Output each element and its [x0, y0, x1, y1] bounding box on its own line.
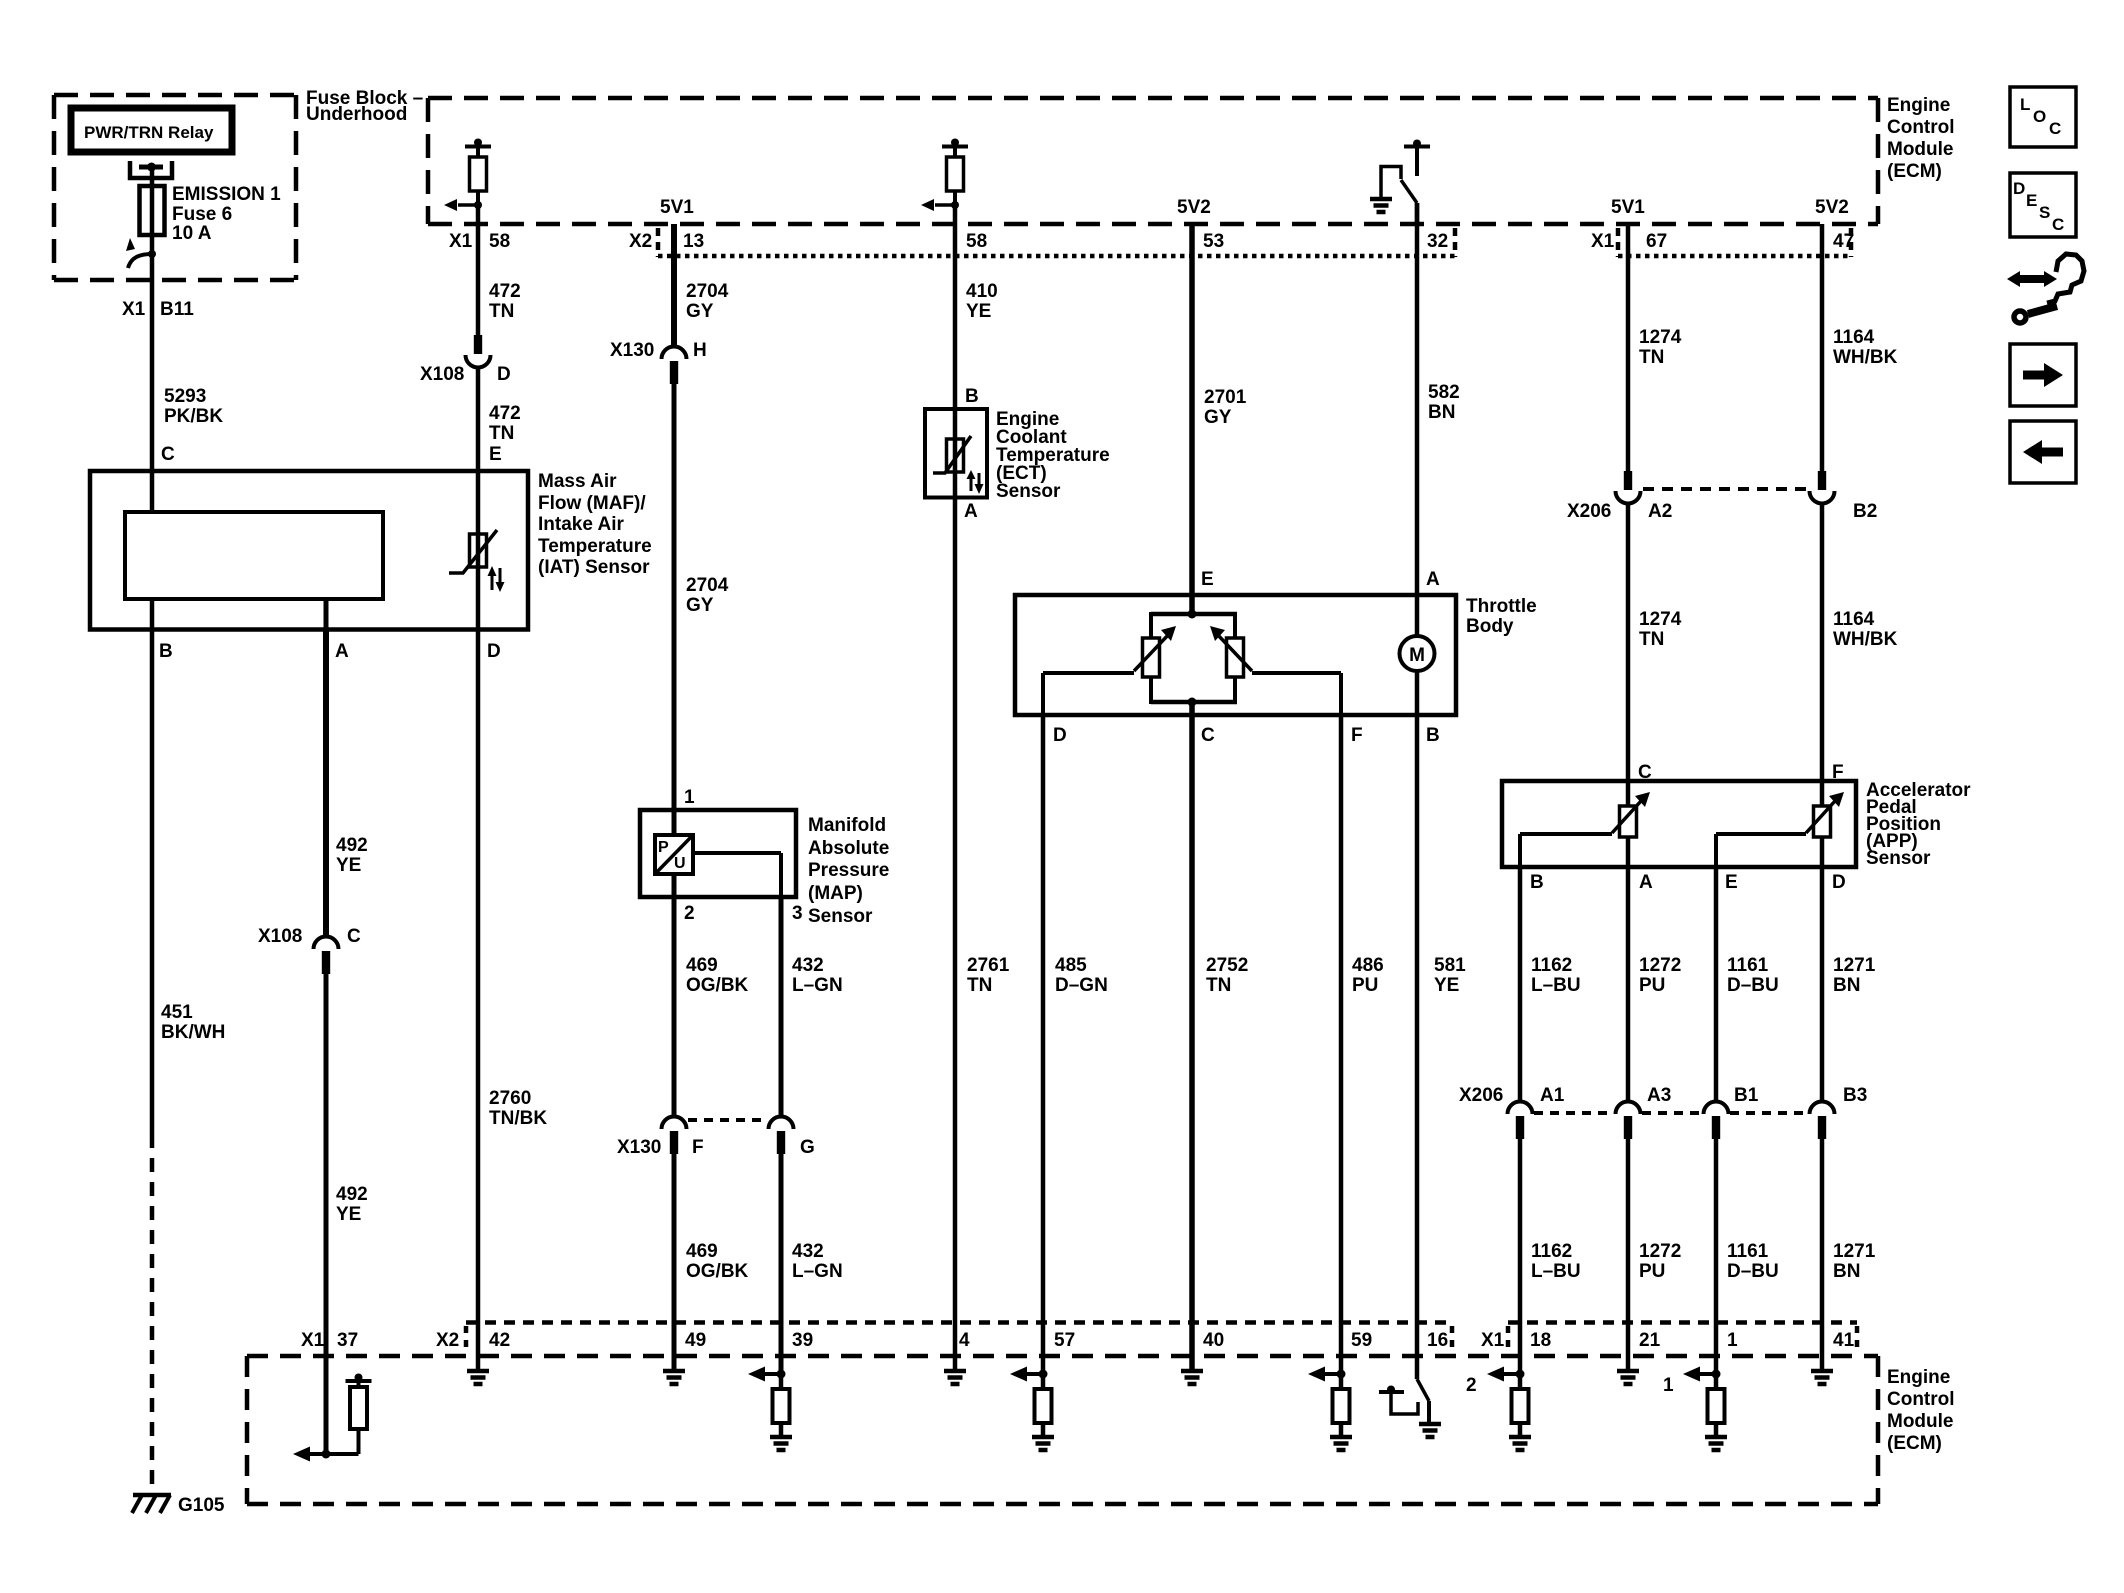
svg-text:1274: 1274	[1639, 609, 1682, 630]
APP pin F label	[1832, 762, 1844, 783]
APP potentiometer 2	[1806, 792, 1844, 837]
svg-text:1272: 1272	[1639, 955, 1681, 976]
svg-text:18: 18	[1530, 1330, 1551, 1351]
svg-text:H: H	[693, 340, 707, 361]
svg-text:A: A	[1426, 569, 1440, 590]
pin X1 58 (ECM top)	[449, 231, 510, 252]
ECM top connector face dotted line X2	[658, 254, 1455, 259]
ECM internal pullup resistor at pin X1-58	[444, 139, 491, 225]
APP potentiometer 1	[1612, 792, 1650, 837]
svg-text:2761: 2761	[967, 955, 1010, 976]
ECT arrows up-down	[967, 470, 984, 494]
pin 16 (ECM bottom)	[1427, 1326, 1452, 1352]
wire 432 L-GN MAP3 to X130G	[779, 897, 784, 1118]
wire label 2704 GY upper	[686, 281, 729, 322]
svg-text:Mass Air: Mass Air	[538, 471, 617, 492]
svg-text:2752: 2752	[1206, 955, 1248, 976]
net 5V2 label (pin 47)	[1815, 197, 1849, 218]
svg-text:BK/WH: BK/WH	[161, 1022, 225, 1043]
wire 1271 BN X206 to ECM 41	[1820, 1136, 1825, 1371]
icon part-locator glyph	[2007, 254, 2084, 323]
ECM internal ground pin 42	[467, 1371, 489, 1384]
wire 1164 WH/BK pin47 to X206 B2	[1820, 224, 1825, 471]
wire 492 YE X108C to ECM pin 37	[324, 971, 329, 1454]
throttle pin A label	[1426, 569, 1440, 590]
svg-text:WH/BK: WH/BK	[1833, 629, 1898, 650]
connector X130 pin H	[662, 347, 687, 385]
connector X206 A2-B2 dashed link	[1643, 487, 1807, 491]
svg-text:F: F	[1351, 725, 1363, 746]
wire 582 BN pin32 to throttle A	[1415, 203, 1420, 636]
relay terminal cup	[130, 161, 172, 178]
svg-text:F: F	[692, 1137, 704, 1158]
svg-text:3: 3	[792, 903, 803, 924]
svg-text:5293: 5293	[164, 386, 206, 407]
wire label 1272 PU upper	[1639, 955, 1681, 996]
svg-text:Throttle: Throttle	[1466, 596, 1537, 617]
wire 581 YE throttleB to ECM 16	[1415, 671, 1420, 1379]
svg-text:O: O	[2033, 107, 2046, 126]
svg-text:Underhood: Underhood	[306, 104, 407, 125]
wire label 1274 TN upper	[1639, 327, 1682, 368]
svg-text:B3: B3	[1843, 1085, 1867, 1106]
svg-text:1271: 1271	[1833, 1241, 1876, 1262]
svg-text:C: C	[2049, 119, 2061, 138]
wire label 410 YE	[966, 281, 998, 322]
svg-text:D: D	[1832, 872, 1846, 893]
svg-text:D–BU: D–BU	[1727, 975, 1779, 996]
svg-text:492: 492	[336, 1184, 368, 1205]
APP pin A label	[1639, 872, 1653, 893]
wire label 1164 WH/BK upper	[1833, 327, 1898, 368]
svg-text:1162: 1162	[1531, 1241, 1572, 1262]
wire 469 OG/BK X130F to ECM 49	[672, 1151, 677, 1371]
ECM internal ground pin 40	[1181, 1371, 1203, 1384]
svg-text:Absolute: Absolute	[808, 838, 889, 859]
svg-text:5V2: 5V2	[1815, 197, 1849, 218]
svg-text:37: 37	[337, 1330, 358, 1351]
throttle pin D label	[1053, 725, 1067, 746]
wire label 432 L-GN lower	[792, 1241, 843, 1282]
ECM internal arrow-resistor-ground pin 18	[1466, 1367, 1531, 1451]
wire 2704 GY X130H to MAP pin 1	[672, 381, 677, 835]
svg-text:1: 1	[684, 787, 695, 808]
wire label 1161 D-BU upper	[1727, 955, 1779, 996]
svg-text:2: 2	[1466, 1375, 1477, 1396]
ECM bottom dashed box	[247, 1356, 1878, 1504]
MAP P/U transducer symbol	[655, 835, 693, 874]
MAF-IAT sensor box	[90, 471, 528, 630]
svg-text:1: 1	[1663, 1375, 1674, 1396]
pin 53 (ECM top)	[1203, 231, 1224, 252]
svg-text:G105: G105	[178, 1495, 225, 1516]
ECM internal ground pin 4	[944, 1371, 966, 1384]
svg-text:16: 16	[1427, 1330, 1448, 1351]
APP sensor box	[1502, 781, 1856, 867]
svg-text:Body: Body	[1466, 616, 1514, 637]
svg-text:D–BU: D–BU	[1727, 1261, 1779, 1282]
svg-text:BN: BN	[1833, 1261, 1860, 1282]
svg-text:TN: TN	[489, 423, 514, 444]
svg-text:X206: X206	[1567, 501, 1611, 522]
ECM internal ground pin 21	[1617, 1371, 1639, 1384]
MAP sensor box	[640, 810, 796, 897]
wire 492 YE MAF-A to X108C	[323, 630, 329, 939]
wire label 1271 BN lower	[1833, 1241, 1876, 1282]
connector X108 D labels	[420, 364, 511, 385]
wire 1271 BN APP-D to X206 B3	[1820, 867, 1825, 1103]
svg-text:1164: 1164	[1833, 327, 1875, 348]
svg-text:21: 21	[1639, 1330, 1661, 1351]
svg-text:58: 58	[489, 231, 510, 252]
svg-text:Fuse 6: Fuse 6	[172, 204, 232, 225]
pin X1 67 (ECM top)	[1591, 228, 1667, 257]
relay K PWR/TRN Relay box	[71, 108, 232, 152]
svg-text:P: P	[658, 839, 669, 856]
wire label 581 YE	[1434, 955, 1466, 996]
svg-text:X130: X130	[610, 340, 654, 361]
svg-text:TN: TN	[967, 975, 992, 996]
svg-text:5V2: 5V2	[1177, 197, 1211, 218]
pin 39 (ECM bottom)	[792, 1330, 813, 1351]
ECM internal arrow-resistor-ground pin 59	[1308, 1367, 1352, 1451]
wire 472 TN X108 to MAF pin E	[476, 368, 481, 471]
wire MAF pin C internal	[150, 471, 155, 512]
svg-text:A: A	[1639, 872, 1653, 893]
svg-text:486: 486	[1352, 955, 1384, 976]
MAF pin B label	[159, 641, 173, 662]
svg-text:(ECM): (ECM)	[1887, 1433, 1942, 1454]
svg-text:PK/BK: PK/BK	[164, 406, 223, 427]
svg-text:2704: 2704	[686, 575, 729, 596]
svg-text:581: 581	[1434, 955, 1466, 976]
APP pin C label	[1638, 762, 1652, 783]
APP wiper wire to pin E	[1716, 834, 1806, 867]
wire label 1164 WH/BK lower	[1833, 609, 1898, 650]
svg-text:TN: TN	[1639, 629, 1664, 650]
svg-text:1271: 1271	[1833, 955, 1876, 976]
wire label 492 YE lower	[336, 1184, 368, 1225]
svg-text:53: 53	[1203, 231, 1224, 252]
svg-text:451: 451	[161, 1002, 193, 1023]
icon LOC box	[2010, 87, 2076, 147]
svg-text:B11: B11	[160, 299, 194, 320]
svg-text:410: 410	[966, 281, 998, 302]
svg-text:A: A	[964, 501, 978, 522]
pin 57 (ECM bottom)	[1054, 1330, 1075, 1351]
pin 47 (ECM top)	[1833, 228, 1854, 257]
wire label 2761 TN	[967, 955, 1010, 996]
svg-text:X1: X1	[449, 231, 473, 252]
svg-text:41: 41	[1833, 1330, 1855, 1351]
svg-text:A: A	[335, 641, 349, 662]
ECM bottom label	[1887, 1367, 1955, 1454]
pin 41 (ECM bottom)	[1833, 1326, 1857, 1352]
wire 485 D-GN throttleD to ECM 57	[1041, 715, 1046, 1374]
throttle pin B label	[1426, 725, 1440, 746]
svg-text:10 A: 10 A	[172, 223, 212, 244]
svg-text:E: E	[489, 444, 502, 465]
svg-text:B: B	[159, 641, 173, 662]
svg-text:YE: YE	[336, 1204, 361, 1225]
throttle TP potentiometer 2	[1210, 626, 1252, 677]
svg-text:X130: X130	[617, 1137, 661, 1158]
svg-text:39: 39	[792, 1330, 813, 1351]
svg-text:S: S	[2039, 203, 2050, 222]
svg-text:X108: X108	[258, 926, 302, 947]
svg-text:C: C	[2052, 215, 2064, 234]
svg-text:B: B	[1426, 725, 1440, 746]
pin 32 (ECM top)	[1427, 228, 1455, 257]
svg-text:1272: 1272	[1639, 1241, 1681, 1262]
pin 4 (ECM bottom)	[959, 1330, 970, 1351]
wire label 486 PU	[1352, 955, 1384, 996]
connector X206 pin B3	[1810, 1102, 1835, 1140]
wire label 5293 PK/BK	[164, 386, 223, 427]
svg-text:X1: X1	[1591, 231, 1615, 252]
svg-text:L–BU: L–BU	[1531, 975, 1581, 996]
throttle body box	[1015, 595, 1456, 715]
svg-text:469: 469	[686, 1241, 718, 1262]
connector X206 lower labels	[1459, 1085, 1867, 1106]
wire 1274 TN X206 to APP C	[1626, 504, 1631, 806]
svg-text:B: B	[1530, 872, 1544, 893]
connector X206 A2 B2 labels	[1567, 501, 1877, 522]
svg-text:PU: PU	[1639, 975, 1665, 996]
fuse block underhood dashed box	[54, 95, 296, 280]
pin X1 B11 fuse block	[122, 299, 194, 320]
MAP pin 2 label	[684, 903, 695, 924]
wire label 1272 PU lower	[1639, 1241, 1681, 1282]
wire label 432 L-GN upper	[792, 955, 843, 996]
svg-text:YE: YE	[1434, 975, 1459, 996]
svg-text:BN: BN	[1428, 402, 1455, 423]
svg-text:4: 4	[959, 1330, 970, 1351]
svg-text:582: 582	[1428, 382, 1460, 403]
ECM internal switch to ground at pin 32	[1370, 140, 1430, 225]
svg-text:X1: X1	[301, 1330, 325, 1351]
svg-text:42: 42	[489, 1330, 510, 1351]
svg-text:1161: 1161	[1727, 955, 1769, 976]
wire label 582 BN	[1428, 382, 1460, 423]
ECT sensor name label	[996, 409, 1110, 502]
svg-text:X206: X206	[1459, 1085, 1503, 1106]
connector X130 F-G dashed link	[688, 1118, 768, 1122]
wire 2761 TN ECT-A to ECM 4	[953, 498, 958, 1372]
svg-text:X1: X1	[122, 299, 146, 320]
ECM internal ground pin 49	[663, 1371, 685, 1384]
wire label 472 TN lower	[489, 403, 521, 444]
wire APP A internal	[1626, 837, 1631, 867]
ground G105 label	[178, 1495, 225, 1516]
wire label 2701 GY	[1204, 387, 1247, 428]
icon arrow right box	[2010, 344, 2076, 406]
connector X206 pin A2	[1616, 471, 1641, 504]
svg-text:1161: 1161	[1727, 1241, 1769, 1262]
svg-text:485: 485	[1055, 955, 1087, 976]
svg-text:L: L	[2020, 95, 2030, 114]
IAT thermistor	[449, 530, 497, 573]
svg-text:(ECM): (ECM)	[1887, 161, 1942, 182]
svg-text:D–GN: D–GN	[1055, 975, 1108, 996]
ECT sensor box	[925, 409, 987, 498]
svg-text:D: D	[487, 641, 501, 662]
throttle wiper wire to pin F	[1252, 673, 1341, 715]
svg-text:L–BU: L–BU	[1531, 1261, 1581, 1282]
wire 1274 TN pin67 to X206 A2	[1626, 224, 1631, 471]
throttle pin F label	[1351, 725, 1363, 746]
pin X1 37 (ECM bottom)	[301, 1330, 358, 1351]
svg-text:1164: 1164	[1833, 609, 1875, 630]
wire label 1271 BN upper	[1833, 955, 1876, 996]
wire label 451 BK/WH	[161, 1002, 225, 1043]
svg-text:X108: X108	[420, 364, 464, 385]
svg-text:BN: BN	[1833, 975, 1860, 996]
svg-text:59: 59	[1351, 1330, 1372, 1351]
svg-text:Control: Control	[1887, 117, 1955, 138]
wire label 472 TN upper	[489, 281, 521, 322]
svg-text:Engine: Engine	[1887, 1367, 1950, 1388]
wire label 1161 D-BU lower	[1727, 1241, 1779, 1282]
svg-text:M: M	[1409, 645, 1425, 666]
APP wiper wire to pin B	[1520, 834, 1612, 867]
svg-text:G: G	[800, 1137, 815, 1158]
svg-text:(MAP): (MAP)	[808, 883, 863, 904]
svg-text:C: C	[1201, 725, 1215, 746]
svg-text:TN/BK: TN/BK	[489, 1108, 547, 1129]
svg-text:TN: TN	[489, 301, 514, 322]
svg-text:57: 57	[1054, 1330, 1075, 1351]
svg-text:2760: 2760	[489, 1088, 531, 1109]
svg-text:YE: YE	[336, 855, 361, 876]
wire 451 BK/WH solid	[150, 630, 155, 1135]
svg-text:Sensor: Sensor	[1866, 848, 1931, 869]
wire label 1162 L-BU upper	[1531, 955, 1581, 996]
svg-text:58: 58	[966, 231, 987, 252]
wire label 1274 TN lower	[1639, 609, 1682, 650]
wire 469 OG/BK MAP2 to X130F	[672, 897, 677, 1118]
ECM top label	[1887, 95, 1955, 182]
MAP internal wire to pin 3	[693, 853, 781, 897]
svg-text:PU: PU	[1352, 975, 1378, 996]
connector X206 pin A1	[1508, 1102, 1533, 1140]
throttle TP sensor bridge	[1151, 610, 1237, 707]
MAF pin C label	[161, 444, 175, 465]
ECM internal arrow-resistor-ground pin 1	[1663, 1367, 1727, 1451]
svg-text:Sensor: Sensor	[808, 906, 873, 927]
svg-text:A1: A1	[1540, 1085, 1565, 1106]
svg-text:C: C	[161, 444, 175, 465]
svg-text:13: 13	[683, 231, 704, 252]
svg-text:1274: 1274	[1639, 327, 1682, 348]
svg-text:U: U	[674, 855, 686, 872]
connector X206 pin A3	[1616, 1102, 1641, 1140]
svg-text:Temperature: Temperature	[538, 536, 652, 557]
connector X130 H labels	[610, 340, 707, 361]
svg-text:B1: B1	[1734, 1085, 1759, 1106]
svg-text:Sensor: Sensor	[996, 481, 1061, 502]
svg-text:Manifold: Manifold	[808, 815, 886, 836]
svg-text:B2: B2	[1853, 501, 1877, 522]
wire MAF B internal	[150, 599, 155, 630]
pin X2 42 (ECM bottom)	[436, 1326, 510, 1352]
svg-text:2704: 2704	[686, 281, 729, 302]
svg-text:(IAT) Sensor: (IAT) Sensor	[538, 557, 650, 578]
ECM bottom connector face dotted line X2	[466, 1320, 1452, 1325]
wire APP D internal	[1820, 837, 1825, 867]
svg-text:472: 472	[489, 403, 521, 424]
wire MAP internal pin2	[672, 874, 677, 897]
svg-text:A3: A3	[1647, 1085, 1671, 1106]
wire fuse block to MAF pin C	[150, 254, 155, 471]
svg-text:5V1: 5V1	[660, 197, 694, 218]
pin 49 (ECM bottom)	[685, 1330, 706, 1351]
connector X108 pin C	[314, 937, 339, 975]
ECT pin B label	[965, 386, 979, 407]
svg-text:EMISSION 1: EMISSION 1	[172, 184, 281, 205]
svg-text:432: 432	[792, 955, 824, 976]
wire 1161 D-BU APP-E to X206 B1	[1714, 867, 1719, 1103]
pin 40 (ECM bottom)	[1203, 1330, 1224, 1351]
fuse F6 EMISSION 1 10A	[140, 184, 282, 244]
svg-text:Control: Control	[1887, 1389, 1955, 1410]
svg-text:A2: A2	[1648, 501, 1672, 522]
ECM internal pullup resistor at pin 58	[921, 139, 968, 225]
ECM internal arrow-resistor-ground pin 39	[748, 1367, 792, 1451]
svg-text:Engine: Engine	[1887, 95, 1950, 116]
svg-text:E: E	[2026, 191, 2037, 210]
svg-text:40: 40	[1203, 1330, 1224, 1351]
ground G105 chassis symbol	[132, 1495, 171, 1513]
wire label 2704 GY lower	[686, 575, 729, 616]
wire 472 TN pin58 to X108	[476, 224, 481, 335]
MAF pin D label	[487, 641, 501, 662]
svg-text:OG/BK: OG/BK	[686, 1261, 749, 1282]
connector X206 A1-A3 dashed link	[1534, 1111, 1614, 1115]
svg-text:Module: Module	[1887, 1411, 1954, 1432]
svg-text:E: E	[1201, 569, 1214, 590]
net 5V2 label (pin 53)	[1177, 197, 1211, 218]
wire 1164 WH/BK X206 to APP F	[1820, 504, 1825, 806]
MAP sensor name label	[808, 815, 889, 927]
wire MAF A internal	[324, 599, 329, 630]
svg-text:L–GN: L–GN	[792, 1261, 843, 1282]
ECM bottom connector face dotted line X1	[1508, 1320, 1857, 1325]
MAP pin 1 label	[684, 787, 695, 808]
connector X108 C labels	[258, 926, 361, 947]
svg-text:OG/BK: OG/BK	[686, 975, 749, 996]
MAF sensor inner element box	[125, 512, 383, 599]
svg-text:TN: TN	[1206, 975, 1231, 996]
APP pin B label	[1530, 872, 1544, 893]
svg-text:D: D	[497, 364, 511, 385]
wire 1161 D-BU X206 to ECM 1	[1714, 1136, 1719, 1374]
svg-text:B: B	[965, 386, 979, 407]
svg-text:TN: TN	[1639, 347, 1664, 368]
ECM internal pin 37 arrow and resistor	[293, 1374, 372, 1462]
throttle TP potentiometer 1	[1134, 626, 1176, 677]
svg-text:Intake Air: Intake Air	[538, 514, 624, 535]
svg-text:432: 432	[792, 1241, 824, 1262]
svg-text:2: 2	[684, 903, 695, 924]
svg-text:1: 1	[1727, 1330, 1738, 1351]
relay contact blade	[126, 238, 156, 268]
APP sensor name label	[1866, 780, 1971, 869]
net 5V1 label (pin 67)	[1611, 197, 1645, 218]
svg-text:WH/BK: WH/BK	[1833, 347, 1898, 368]
IAT arrows up-down	[488, 566, 505, 592]
svg-text:E: E	[1725, 872, 1738, 893]
